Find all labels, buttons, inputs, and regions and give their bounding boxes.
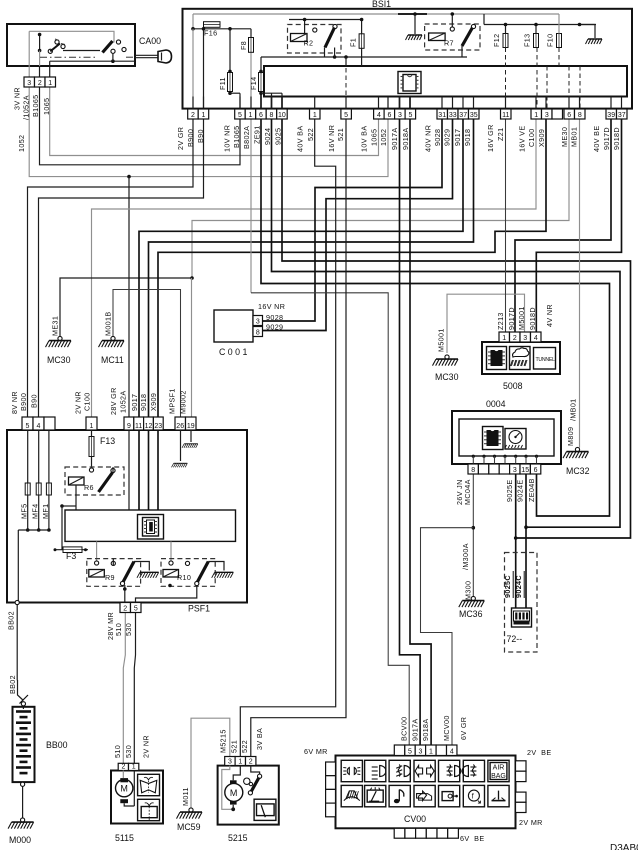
svg-text:BB02: BB02 [8, 675, 17, 694]
svg-text:D3AB0: D3AB0 [610, 843, 638, 850]
svg-text:CA00: CA00 [139, 36, 161, 46]
svg-text:522: 522 [306, 128, 315, 141]
svg-text:/1052A: /1052A [21, 95, 30, 120]
svg-text:MC36: MC36 [459, 609, 483, 619]
svg-text:9018A: 9018A [401, 127, 410, 150]
svg-text:F11: F11 [218, 77, 227, 90]
svg-text:1065: 1065 [42, 98, 51, 115]
svg-text:3: 3 [27, 80, 31, 87]
svg-text:9: 9 [127, 423, 131, 430]
svg-text:6V MR: 6V MR [304, 747, 328, 756]
svg-text:2V MR: 2V MR [519, 818, 543, 827]
svg-text:1052: 1052 [379, 129, 388, 146]
svg-text:1: 1 [238, 758, 242, 765]
svg-text:2: 2 [191, 112, 195, 119]
svg-text:R6: R6 [84, 483, 94, 492]
svg-text:72--: 72-- [507, 634, 523, 644]
svg-text:2: 2 [123, 605, 127, 612]
svg-text:R10: R10 [177, 573, 191, 582]
svg-text:8: 8 [256, 329, 260, 336]
svg-text:2V NR: 2V NR [142, 735, 151, 758]
svg-text:4: 4 [534, 335, 538, 342]
svg-text:1052A: 1052A [119, 390, 128, 413]
svg-text:9024: 9024 [263, 128, 272, 145]
svg-text:BB00: BB00 [46, 740, 68, 750]
svg-text:23: 23 [154, 423, 162, 430]
svg-text:2: 2 [121, 763, 125, 770]
svg-text:16V NR: 16V NR [327, 125, 336, 152]
svg-text:522: 522 [240, 740, 249, 753]
svg-text:9028: 9028 [266, 313, 283, 322]
svg-text:TUNNEL: TUNNEL [536, 357, 556, 363]
svg-text:9018: 9018 [139, 394, 148, 411]
svg-text:3: 3 [418, 748, 422, 755]
svg-text:4: 4 [37, 423, 41, 430]
svg-text:3: 3 [513, 467, 517, 474]
svg-text:10V NR: 10V NR [223, 125, 232, 152]
svg-text:1: 1 [313, 112, 317, 119]
svg-text:B900: B900 [186, 129, 195, 147]
svg-text:8: 8 [578, 112, 582, 119]
svg-text:11: 11 [135, 423, 142, 430]
svg-text:F12: F12 [492, 34, 501, 47]
svg-text:9018: 9018 [463, 129, 472, 146]
svg-text:MC30: MC30 [435, 372, 459, 382]
svg-text:37: 37 [618, 112, 626, 119]
svg-text:M: M [120, 784, 128, 794]
svg-text:9025C: 9025C [503, 575, 512, 598]
svg-text:6: 6 [534, 467, 538, 474]
svg-text:1: 1 [429, 748, 433, 755]
svg-text:9025E: 9025E [505, 479, 514, 502]
svg-text:MC59: MC59 [177, 822, 201, 832]
svg-text:40V BE: 40V BE [592, 126, 601, 152]
svg-text:39: 39 [607, 112, 615, 119]
svg-text:F8: F8 [239, 41, 248, 50]
svg-text:ZE91: ZE91 [253, 125, 262, 144]
svg-text:F3: F3 [66, 551, 76, 561]
svg-text:Z213: Z213 [496, 312, 505, 330]
svg-text:/M300A: /M300A [461, 543, 470, 570]
svg-text:5: 5 [26, 423, 30, 430]
svg-text:9017D: 9017D [507, 307, 516, 330]
svg-text:MF5: MF5 [20, 504, 29, 519]
svg-text:0004: 0004 [486, 399, 506, 409]
svg-text:4: 4 [450, 748, 454, 755]
svg-text:2V GR: 2V GR [176, 127, 185, 150]
svg-text:9024E: 9024E [516, 479, 525, 502]
svg-text:9017A: 9017A [410, 718, 419, 741]
svg-text:MC30: MC30 [47, 355, 71, 365]
svg-text:BSI1: BSI1 [372, 0, 391, 9]
svg-text:5008: 5008 [503, 381, 523, 391]
svg-text:F13: F13 [100, 436, 115, 446]
svg-text:R9: R9 [105, 573, 115, 582]
svg-text:9018D: 9018D [612, 127, 621, 150]
svg-text:MCV00: MCV00 [442, 715, 451, 741]
svg-text:521: 521 [230, 740, 239, 753]
svg-text:1: 1 [502, 335, 506, 342]
svg-text:M5001: M5001 [436, 328, 445, 352]
svg-text:40V NR: 40V NR [424, 125, 433, 152]
svg-text:9029: 9029 [443, 129, 452, 146]
svg-text:PSF1: PSF1 [188, 604, 210, 614]
svg-text:C 0 0 1: C 0 0 1 [219, 347, 247, 357]
svg-text:1052: 1052 [17, 135, 26, 152]
svg-text:40V BA: 40V BA [296, 126, 305, 152]
svg-text:9017: 9017 [130, 394, 139, 411]
svg-text:3: 3 [545, 112, 549, 119]
svg-text:15: 15 [521, 467, 529, 474]
svg-text:M300: M300 [464, 581, 473, 600]
svg-text:F16: F16 [204, 29, 217, 38]
svg-text:R7: R7 [444, 39, 454, 48]
svg-text:530: 530 [124, 623, 133, 636]
svg-text:ME30: ME30 [560, 127, 569, 147]
svg-text:9017A: 9017A [390, 127, 399, 150]
svg-text:AIR: AIR [493, 765, 505, 772]
svg-text:9017: 9017 [453, 129, 462, 146]
svg-text:1: 1 [48, 80, 52, 87]
svg-text:10V BA: 10V BA [360, 126, 369, 152]
svg-text:C100: C100 [83, 392, 92, 411]
svg-text:6V BE: 6V BE [460, 834, 484, 843]
svg-text:3: 3 [398, 112, 402, 119]
svg-text:Z21: Z21 [496, 128, 505, 141]
svg-text:8V NR: 8V NR [10, 391, 19, 414]
svg-text:12: 12 [145, 423, 153, 430]
svg-text:4: 4 [377, 112, 381, 119]
svg-text:X909: X909 [149, 393, 158, 411]
svg-text:M000: M000 [9, 835, 31, 845]
svg-text:6: 6 [567, 112, 571, 119]
svg-text:8: 8 [269, 112, 273, 119]
svg-text:9028: 9028 [433, 129, 442, 146]
svg-text:1: 1 [248, 112, 252, 119]
svg-text:2: 2 [513, 335, 517, 342]
svg-text:530: 530 [124, 745, 133, 758]
svg-text:10: 10 [278, 112, 286, 119]
svg-text:B90: B90 [30, 394, 39, 408]
svg-text:5: 5 [408, 112, 412, 119]
svg-text:2V NR: 2V NR [74, 391, 83, 414]
svg-text:1: 1 [534, 112, 538, 119]
svg-text:9018D: 9018D [528, 307, 537, 330]
svg-text:11: 11 [502, 112, 509, 119]
svg-text:M809: M809 [566, 427, 575, 446]
svg-text:M011: M011 [181, 787, 190, 806]
svg-text:16V NR: 16V NR [258, 302, 285, 311]
svg-text:6: 6 [387, 112, 391, 119]
svg-text:9017D: 9017D [602, 127, 611, 150]
svg-text:1: 1 [132, 763, 136, 770]
svg-text:9024C: 9024C [514, 575, 523, 598]
svg-text:F10: F10 [546, 34, 555, 47]
svg-text:33: 33 [449, 112, 457, 119]
svg-text:16V GR: 16V GR [486, 124, 495, 152]
svg-text:M001B: M001B [104, 311, 113, 336]
svg-text:28V GR: 28V GR [109, 387, 118, 415]
svg-text:1: 1 [90, 423, 94, 430]
svg-text:37: 37 [459, 112, 467, 119]
svg-text:B900: B900 [19, 393, 28, 411]
svg-text:B1065: B1065 [31, 94, 40, 117]
svg-text:5: 5 [238, 112, 242, 119]
svg-text:9029: 9029 [266, 322, 283, 331]
svg-text:M9002: M9002 [179, 390, 188, 414]
svg-text:2: 2 [38, 80, 42, 87]
svg-text:M5215: M5215 [219, 729, 228, 753]
svg-text:8: 8 [471, 467, 475, 474]
svg-text:19: 19 [187, 423, 195, 430]
svg-text:3: 3 [523, 335, 527, 342]
svg-text:5: 5 [134, 605, 138, 612]
svg-text:510: 510 [113, 745, 122, 758]
svg-text:MC32: MC32 [566, 466, 590, 476]
svg-text:4V NR: 4V NR [545, 304, 554, 327]
svg-text:MC04A: MC04A [463, 479, 472, 505]
svg-text:5215: 5215 [228, 833, 248, 843]
svg-text:B90: B90 [196, 129, 205, 143]
svg-text:MC11: MC11 [101, 355, 124, 365]
svg-text:510: 510 [114, 623, 123, 636]
svg-text:R2: R2 [304, 39, 314, 48]
svg-text:M5001: M5001 [517, 306, 526, 330]
svg-text:2: 2 [249, 758, 253, 765]
svg-text:3: 3 [256, 318, 260, 325]
svg-text:5: 5 [408, 748, 412, 755]
svg-text:MF1: MF1 [41, 504, 50, 519]
svg-text:BB02: BB02 [7, 611, 16, 630]
svg-text:9018A: 9018A [421, 718, 430, 741]
svg-text:16V VE: 16V VE [518, 126, 527, 152]
svg-text:ZE04B: ZE04B [527, 478, 536, 502]
svg-text:B802A: B802A [242, 126, 251, 149]
svg-text:F14: F14 [249, 77, 258, 90]
svg-text:6: 6 [259, 112, 263, 119]
svg-text:5115: 5115 [115, 833, 134, 843]
svg-text:3: 3 [228, 758, 232, 765]
svg-text:1: 1 [201, 112, 205, 119]
svg-text:BAG: BAG [491, 773, 506, 780]
svg-text:9025: 9025 [274, 128, 283, 145]
svg-text:f: f [472, 794, 474, 801]
svg-text:F13: F13 [523, 34, 532, 47]
svg-text:2V BE: 2V BE [527, 748, 551, 757]
svg-text:31: 31 [438, 112, 446, 119]
svg-text:C100: C100 [527, 128, 536, 147]
svg-text:X909: X909 [537, 129, 546, 147]
svg-text:5: 5 [344, 112, 348, 119]
svg-text:MPSF1: MPSF1 [168, 388, 177, 414]
svg-text:MB01: MB01 [570, 127, 579, 147]
svg-text:BCV00: BCV00 [400, 716, 409, 741]
svg-text:ME31: ME31 [51, 316, 60, 336]
svg-text:3V NR: 3V NR [13, 87, 22, 110]
svg-text:MF4: MF4 [31, 504, 40, 519]
svg-text:35: 35 [470, 112, 478, 119]
svg-text:CV00: CV00 [404, 814, 426, 824]
svg-text:M: M [230, 788, 238, 798]
svg-text:/MB01: /MB01 [569, 398, 578, 421]
svg-text:6V GR: 6V GR [459, 717, 468, 740]
svg-text:26: 26 [176, 423, 184, 430]
svg-text:1065: 1065 [370, 129, 379, 146]
svg-text:F1: F1 [349, 38, 358, 47]
svg-text:B1065: B1065 [232, 125, 241, 148]
svg-text:3V BA: 3V BA [255, 728, 264, 750]
svg-text:521: 521 [336, 128, 345, 141]
